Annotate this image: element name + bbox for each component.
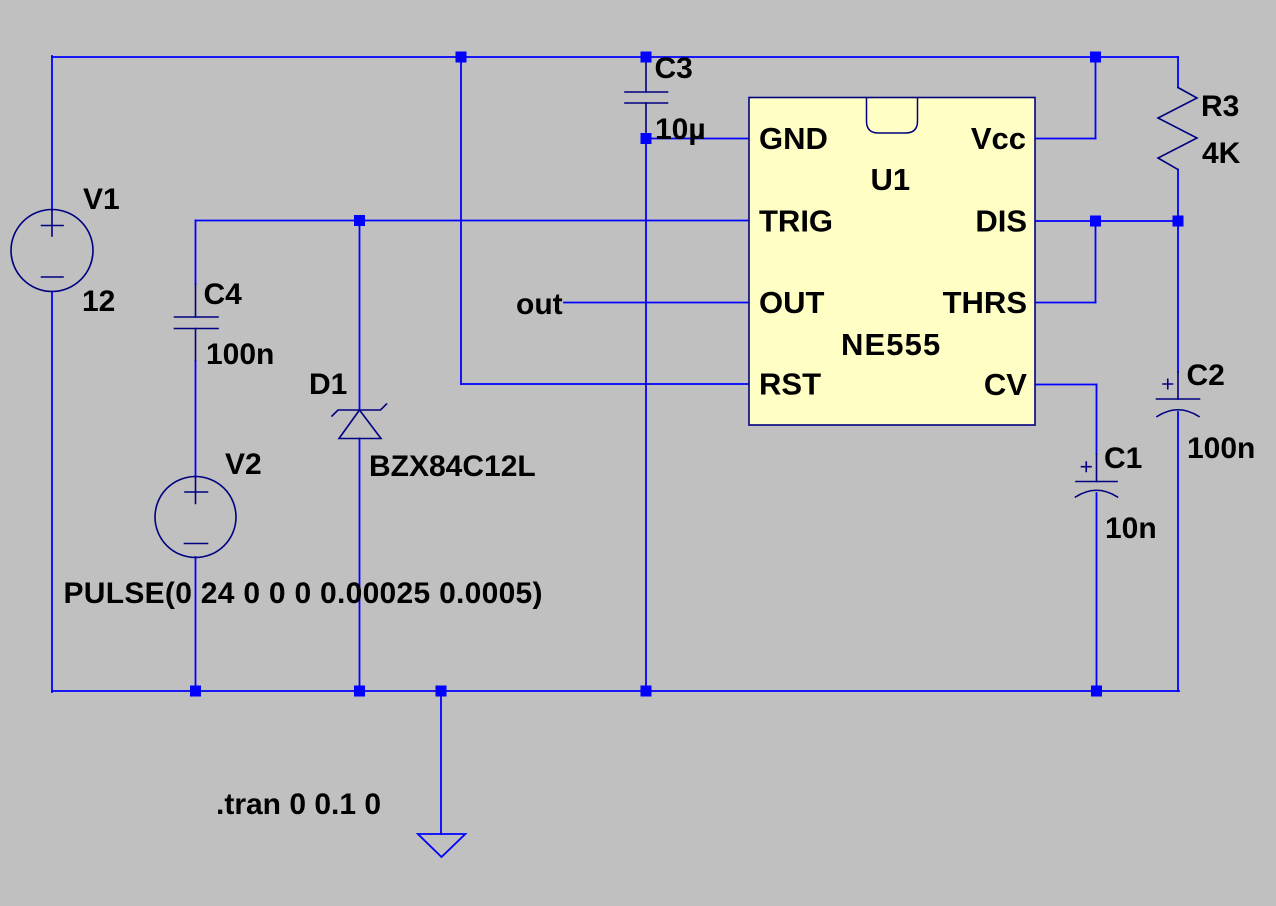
junction bottom rail / ground flag — [436, 686, 447, 697]
capacitor C1 plates — [1076, 481, 1117, 483]
IC U1 notch — [867, 98, 918, 133]
svg-text:GND: GND — [759, 121, 828, 156]
svg-text:V2: V2 — [225, 448, 262, 481]
svg-text:out: out — [516, 288, 563, 321]
wire top rail — [52, 56, 1178, 58]
junction DIS wire / THRS column — [1090, 216, 1101, 227]
wire CV pin horizontal — [1035, 384, 1097, 386]
wire D1 bottom segment — [359, 439, 361, 692]
junction DIS wire / R3 column — [1173, 216, 1184, 227]
junction top rail / Vcc column — [1090, 52, 1101, 63]
svg-text:100n: 100n — [206, 338, 274, 371]
ground symbol triangle — [418, 834, 465, 857]
wire bottom ground rail — [52, 690, 1179, 692]
wire R3 bottom to C2 — [1177, 170, 1179, 373]
svg-text:C2: C2 — [1187, 359, 1225, 392]
svg-text:OUT: OUT — [759, 285, 825, 320]
capacitor C2 polarity plus — [1163, 379, 1173, 388]
wire C4 top segment — [195, 221, 197, 285]
svg-text:4K: 4K — [1202, 137, 1241, 170]
svg-text:10n: 10n — [1105, 512, 1157, 545]
wire TRIG horizontal — [196, 220, 750, 222]
voltage source V2 circle — [155, 477, 236, 558]
capacitor C1 stub — [1096, 454, 1098, 482]
wire top rail to R3 — [1177, 57, 1179, 88]
junction C3 / GND pin — [641, 133, 652, 144]
capacitor C2 stub — [1177, 372, 1179, 399]
zener diode D1 cathode bar — [332, 404, 387, 416]
svg-text:PULSE(0 24 0 0 0 0.00025 0.000: PULSE(0 24 0 0 0 0.00025 0.0005) — [64, 577, 543, 610]
svg-text:C3: C3 — [655, 52, 693, 85]
svg-text:C1: C1 — [1104, 442, 1142, 475]
voltage source V2 plus and minus marks — [185, 477, 208, 544]
capacitor C3 plates — [625, 92, 668, 103]
svg-text:R3: R3 — [1201, 90, 1239, 123]
capacitor C4 stubs — [195, 284, 197, 361]
junction TRIG wire / D1 — [354, 215, 365, 226]
wire RST horizontal — [461, 383, 749, 385]
resistor R3 zigzag — [1158, 88, 1197, 170]
voltage source V1 plus and minus marks — [42, 210, 64, 277]
junction bottom rail / V2 — [190, 686, 201, 697]
svg-text:DIS: DIS — [975, 204, 1027, 239]
svg-text:100n: 100n — [1187, 432, 1255, 465]
wire V2 bottom segment — [195, 557, 197, 691]
svg-text:10µ: 10µ — [655, 113, 706, 146]
wire GND pin horizontal — [646, 138, 749, 140]
svg-text:THRS: THRS — [943, 285, 1027, 320]
svg-text:CV: CV — [984, 367, 1027, 402]
zener diode D1 triangle — [339, 410, 381, 439]
junction top rail / C3 — [641, 52, 652, 63]
junction top rail / RST column — [456, 52, 467, 63]
svg-text:C4: C4 — [204, 278, 243, 311]
svg-text:12: 12 — [82, 285, 115, 318]
wire vertical from top rail to RST row — [460, 57, 462, 384]
svg-text:U1: U1 — [871, 162, 911, 197]
svg-text:NE555: NE555 — [841, 327, 941, 362]
capacitor C2 plates — [1157, 398, 1200, 400]
wire C1 bottom segment — [1096, 493, 1098, 691]
wire C2 bottom segment — [1177, 412, 1179, 691]
wire left rail lower (V1 bottom to ground rail) — [51, 292, 53, 693]
IC U1 body NE555 — [749, 98, 1035, 426]
svg-text:.tran 0 0.1 0: .tran 0 0.1 0 — [216, 788, 381, 821]
svg-text:BZX84C12L: BZX84C12L — [369, 450, 536, 483]
wire DIS pin horizontal — [1035, 220, 1178, 222]
capacitor C1 polarity plus — [1082, 462, 1092, 472]
svg-text:V1: V1 — [83, 183, 120, 216]
wire C4 to V2 segment — [195, 361, 197, 477]
svg-text:D1: D1 — [309, 368, 347, 401]
wire Vcc pin horizontal — [1035, 138, 1096, 140]
wire THRS vertical to DIS node — [1095, 221, 1097, 303]
wire D1 top segment — [359, 221, 361, 411]
junction bottom rail / C1 column — [1091, 686, 1102, 697]
capacitor C3 stubs — [645, 58, 647, 137]
capacitor C4 plates — [175, 317, 219, 329]
junction bottom rail / D1 — [354, 686, 365, 697]
wire left rail upper (V1 top) — [51, 56, 53, 210]
wire OUT pin horizontal — [564, 302, 749, 304]
wire THRS pin horizontal — [1035, 302, 1096, 304]
svg-text:RST: RST — [759, 367, 821, 402]
wire ground stem — [440, 691, 442, 834]
wire CV vertical to C1 — [1096, 385, 1098, 455]
wire C3 column to bottom rail — [645, 139, 647, 692]
voltage source V1 circle — [11, 210, 93, 292]
svg-text:Vcc: Vcc — [971, 121, 1026, 156]
svg-text:TRIG: TRIG — [759, 204, 833, 239]
wire Vcc vertical to top rail — [1095, 57, 1097, 139]
junction bottom rail / C3 column — [641, 686, 652, 697]
